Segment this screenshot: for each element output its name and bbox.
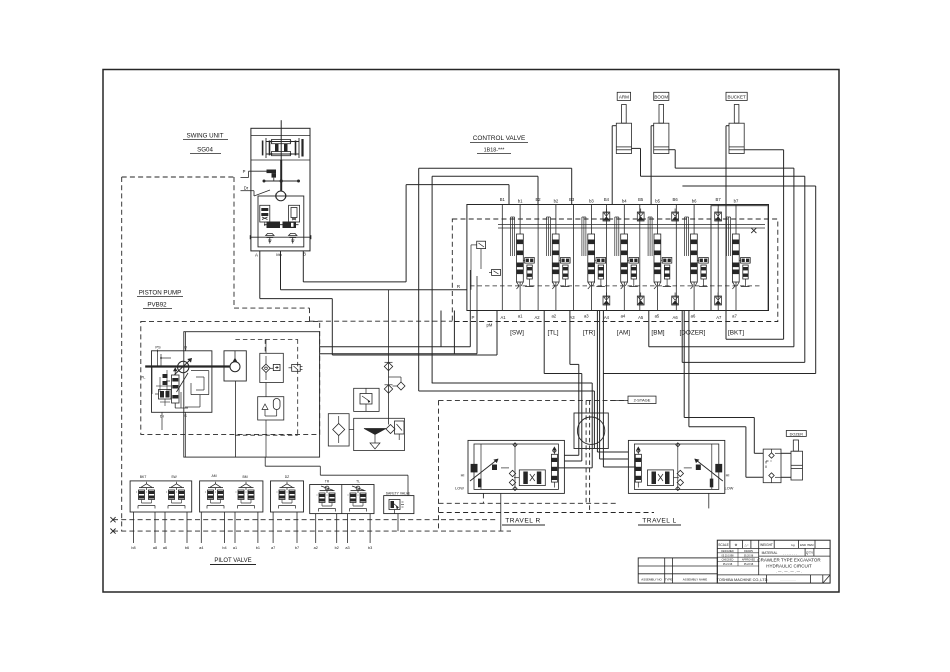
svg-text:a2: a2 — [551, 314, 556, 319]
swing makeup check right — [289, 233, 297, 243]
dashed pilot lines through joint — [586, 400, 590, 512]
svg-text:05.20.98: 05.20.98 — [744, 554, 754, 557]
valve P gallery risers — [470, 270, 477, 311]
main relief valve — [471, 241, 486, 290]
svg-text:[BKT]: [BKT] — [728, 330, 744, 337]
valve section [AM] spool — [607, 205, 639, 311]
svg-text:b6: b6 — [185, 546, 189, 550]
svg-text:SG04: SG04 — [197, 147, 213, 154]
wire valve drain lines to joint — [597, 311, 603, 449]
svg-text:B4: B4 — [604, 197, 610, 202]
swing relief valve right — [289, 205, 300, 226]
svg-text:BOOM: BOOM — [654, 95, 668, 100]
wire trunk line 4 — [419, 391, 595, 449]
label PILOT VALVE — [210, 558, 256, 565]
safety valve — [384, 491, 414, 513]
pilot select valve — [489, 269, 501, 275]
swing makeup check left — [266, 233, 274, 243]
swing anti-cavitation spools — [264, 222, 299, 229]
svg-text:05.21.98: 05.21.98 — [723, 563, 733, 566]
wire swing Mu return R line — [281, 251, 467, 290]
swing motor valve box — [258, 196, 304, 247]
svg-text:a2: a2 — [314, 546, 318, 550]
pump dashed enclosure — [141, 321, 320, 434]
svg-text:ARM: ARM — [619, 95, 629, 100]
svg-text:b4: b4 — [622, 199, 627, 204]
svg-text:P: P — [472, 315, 475, 320]
title drawing name — [757, 558, 821, 574]
svg-text:a5: a5 — [655, 314, 660, 319]
pilot port labels box1 — [131, 546, 189, 550]
control valve section names — [510, 330, 744, 337]
svg-text:WEIGHT: WEIGHT — [760, 543, 773, 547]
svg-text:kg: kg — [791, 543, 795, 547]
svg-text:a3: a3 — [345, 546, 349, 550]
swing relief valve left — [260, 205, 270, 226]
svg-text:a4: a4 — [621, 314, 626, 319]
svg-text:a6: a6 — [691, 314, 696, 319]
svg-text:b2: b2 — [335, 546, 339, 550]
control valve port labels bottom — [500, 314, 737, 321]
port relief valve bottom a6 — [672, 293, 679, 306]
dozer cylinder — [791, 440, 803, 480]
tank return filter with bypass — [386, 421, 404, 440]
dozer pilot check valve box — [763, 449, 781, 483]
valve section [BM] spool — [640, 205, 672, 311]
swing port labels — [255, 252, 306, 258]
wire BOOM head side — [651, 126, 654, 205]
svg-text:b7: b7 — [734, 199, 739, 204]
pilot port labels box4 — [314, 546, 373, 550]
label CONTROL VALVE — [470, 135, 528, 154]
wire BUCKET head side — [726, 126, 729, 340]
svg-text:PL: PL — [141, 375, 147, 380]
travel L motor — [628, 440, 724, 493]
svg-text:CHECKED: CHECKED — [722, 559, 734, 562]
svg-text:b8: b8 — [131, 546, 135, 550]
svg-text:b3: b3 — [589, 199, 594, 204]
label HI LOW travel R — [455, 474, 464, 491]
svg-text:HI: HI — [726, 474, 730, 478]
pilot valve box 4 travel — [310, 485, 374, 514]
pilot accumulator box — [258, 397, 284, 420]
svg-text:. . . . . . . .: . . . . . . . . — [783, 552, 796, 556]
travel R drain stub — [500, 493, 502, 531]
title company name — [717, 575, 830, 583]
svg-text:a1: a1 — [233, 546, 237, 550]
svg-text:b3: b3 — [368, 546, 372, 550]
pilot relief small valve — [289, 364, 303, 371]
wire loop right outer — [682, 186, 815, 374]
travel dashed drain lines — [439, 493, 655, 512]
wire swing A to valve — [260, 251, 497, 355]
wire joint to travel R port 2 — [564, 449, 581, 462]
valve section [TR] spool — [574, 205, 606, 311]
wire loop arm to valve — [641, 176, 805, 362]
DOZER label — [786, 431, 806, 437]
pilot valve box 2 labels — [211, 474, 247, 479]
svg-text:PILOT VALVE: PILOT VALVE — [214, 558, 251, 564]
dashed pilot boundary left — [121, 177, 123, 531]
pump port labels — [141, 345, 188, 419]
svg-text:a8: a8 — [153, 546, 157, 550]
wire joint to travel L port 1 — [597, 449, 628, 453]
svg-text:SCALE: SCALE — [718, 543, 728, 547]
svg-text:BUCKET: BUCKET — [727, 95, 746, 100]
bypass valve box — [354, 388, 379, 411]
port relief valve top b7 — [715, 209, 722, 222]
svg-text:b2: b2 — [554, 199, 559, 204]
svg-text:SW: SW — [171, 475, 177, 479]
pump regulator extra marks — [156, 370, 188, 408]
svg-text:A4: A4 — [604, 315, 610, 320]
svg-text:a6: a6 — [163, 546, 167, 550]
port relief valve bottom a5 — [637, 293, 644, 306]
svg-text:b5: b5 — [655, 199, 660, 204]
title block parts table — [638, 558, 717, 583]
svg-text:P: P — [243, 169, 246, 174]
wire loop boom to valve — [649, 168, 794, 347]
title row 2 texts — [721, 550, 814, 566]
wire ARM rod side — [632, 148, 641, 176]
pump internal stubs — [162, 339, 266, 457]
pilot dashed line 2 with X — [110, 529, 511, 534]
svg-text:B6: B6 — [673, 197, 679, 202]
pump regulator spool — [166, 368, 179, 408]
swing unit outer box — [251, 128, 310, 251]
svg-text:A6: A6 — [673, 315, 679, 320]
svg-text:b7: b7 — [295, 546, 299, 550]
svg-text:05.20.1998: 05.20.1998 — [722, 554, 735, 557]
wire joint to travel L port 2 — [600, 449, 629, 460]
pump outer circuit box — [184, 332, 320, 457]
pilot valve box 4 labels — [325, 480, 360, 484]
svg-text:BM: BM — [242, 475, 247, 479]
svg-text:[AM]: [AM] — [617, 330, 630, 337]
svg-text:B5: B5 — [638, 197, 644, 202]
pump PS line — [158, 350, 172, 367]
port Dr swing — [241, 186, 271, 197]
pump bottom connector — [264, 457, 266, 466]
wire trunk line 2 TL to joint — [544, 311, 582, 449]
svg-text:△○: △○ — [744, 543, 748, 547]
BUCKET cylinder — [726, 92, 747, 153]
wire trunk right branch — [603, 373, 815, 375]
wire trunk line 1 TR to joint — [570, 311, 579, 449]
wire joint to travel R port 3 — [558, 449, 592, 468]
wire ARM head side — [612, 126, 616, 205]
gear pump symbol — [230, 351, 240, 372]
wire BUCKET rod side — [726, 150, 784, 340]
wire dozer section line 2 — [689, 311, 763, 478]
wire joint to travel L port 3 — [603, 449, 636, 468]
pilot valve box 1 — [130, 481, 192, 512]
wire dozer section line 1 — [684, 311, 763, 454]
svg-text:BKT: BKT — [140, 475, 147, 479]
label TRAVEL L — [638, 518, 681, 526]
svg-text:ASSEMBLY NO: ASSEMBLY NO — [641, 578, 662, 582]
swing unit header line — [251, 135, 310, 137]
pilot check valve box — [260, 353, 284, 382]
control valve outer box — [467, 205, 769, 311]
travel R motor — [468, 440, 564, 493]
main pump box — [152, 351, 212, 413]
svg-text:TYPE: TYPE — [665, 578, 673, 582]
svg-text:[TL]: [TL] — [547, 330, 558, 337]
port relief valve top b5 — [637, 209, 644, 222]
svg-text:2-STAGE: 2-STAGE — [634, 398, 651, 403]
control valve port labels top — [500, 197, 739, 204]
piston pump symbol — [145, 359, 229, 375]
svg-text:TL: TL — [356, 480, 360, 484]
svg-text:DESIGNED: DESIGNED — [721, 550, 734, 553]
gear pump box — [224, 351, 246, 381]
swing parking brake port P — [241, 169, 277, 181]
pilot valve box 2 — [200, 481, 263, 512]
svg-text:[SW]: [SW] — [510, 330, 524, 337]
return filter box — [328, 414, 349, 446]
svg-text:HYDRAULIC CIRCUIT: HYDRAULIC CIRCUIT — [766, 563, 812, 568]
X mark right — [751, 228, 756, 233]
svg-text:TR: TR — [325, 480, 330, 484]
svg-text:b1: b1 — [518, 199, 523, 204]
wire trunk line 3 — [432, 383, 593, 449]
dashed travel boundary left — [438, 400, 440, 531]
svg-text:TRAVEL L: TRAVEL L — [642, 518, 676, 525]
svg-text:R: R — [457, 284, 460, 289]
control valve BKT section box — [711, 206, 768, 311]
svg-text:05.22.98: 05.22.98 — [744, 563, 754, 566]
control valve dashed boundary — [452, 219, 778, 322]
label SWING UNIT — [183, 133, 228, 154]
pilot valve port lines box3 — [273, 512, 297, 543]
valve section [SW] spool — [502, 205, 534, 311]
svg-text:A7: A7 — [716, 315, 722, 320]
control valve internal dashed line — [470, 285, 761, 287]
svg-text:a7: a7 — [271, 546, 275, 550]
BOOM cylinder — [654, 92, 669, 153]
rotary joint — [574, 413, 608, 449]
wire BOOM rod side — [669, 150, 675, 168]
tank link line — [349, 429, 354, 431]
svg-text:b4: b4 — [222, 546, 226, 550]
safety valve drain — [397, 514, 399, 532]
dashed pilot route swing to pM — [122, 177, 453, 321]
title block main box — [717, 540, 830, 583]
label TRAVEL R — [502, 518, 545, 526]
svg-text:SAFETY VALVE: SAFETY VALVE — [386, 491, 411, 495]
hydraulic tank — [354, 418, 405, 450]
svg-text:DZ: DZ — [285, 475, 290, 479]
svg-text:TOSHIBA MACHINE CO.,LTD.: TOSHIBA MACHINE CO.,LTD. — [717, 578, 769, 582]
svg-text:A2: A2 — [534, 315, 540, 320]
swing motor shaft — [263, 160, 301, 191]
wire loop travel left supply — [432, 176, 538, 383]
pilot valve box 3 label — [285, 475, 290, 479]
svg-text:HI: HI — [461, 474, 465, 478]
swing bottom bus — [250, 235, 311, 239]
port relief valve bottom a4 — [603, 293, 610, 306]
svg-text:APPROVED: APPROVED — [742, 559, 756, 562]
svg-text:a7: a7 — [732, 314, 737, 319]
wire joint to travel R port 1 — [564, 449, 578, 456]
suction check valves — [384, 290, 405, 425]
travel L drain stub — [708, 493, 710, 508]
valve section [BKT] spool — [718, 205, 750, 311]
svg-text:MATERIAL: MATERIAL — [762, 551, 778, 555]
2-STAGE label — [439, 396, 657, 403]
wire pump P1 to valve — [320, 311, 471, 347]
svg-text:b6: b6 — [692, 199, 697, 204]
svg-text:CRAWLER TYPE EXCAVATOR: CRAWLER TYPE EXCAVATOR — [757, 558, 821, 563]
svg-text:a3: a3 — [584, 314, 589, 319]
svg-text:TRAVEL R: TRAVEL R — [505, 518, 541, 525]
wire dozer valve to cylinder — [781, 453, 791, 477]
valve section [DOZER] spool — [676, 205, 708, 311]
svg-text:A1: A1 — [500, 315, 506, 320]
pump Q outlet stub — [184, 332, 186, 351]
svg-text:LOW: LOW — [455, 487, 464, 491]
svg-text:AM: AM — [211, 474, 216, 478]
svg-text:. — . — . — . — .: . — . — . — . — . — [776, 569, 802, 573]
svg-text:B1: B1 — [500, 197, 506, 202]
control valve internal bus lines — [498, 224, 765, 228]
wire pump P risers — [441, 311, 454, 354]
svg-text:A: A — [255, 253, 258, 258]
svg-text:SWING UNIT: SWING UNIT — [186, 133, 223, 140]
svg-text:LOW: LOW — [725, 487, 734, 491]
svg-text:pM: pM — [486, 323, 492, 328]
ARM cylinder — [616, 92, 631, 153]
svg-text:PISTON PUMP: PISTON PUMP — [139, 290, 182, 297]
port relief valve top b4 — [603, 209, 610, 222]
svg-text:a4: a4 — [199, 546, 203, 550]
wire swing B to valve B1 — [303, 185, 509, 282]
swing hydraulic motor — [276, 191, 286, 201]
label HI LOW travel L — [725, 474, 734, 491]
svg-text:CONTROL VALVE: CONTROL VALVE — [473, 135, 525, 142]
port relief valve top b6 — [672, 209, 679, 222]
pilot valve port lines box4 — [316, 514, 370, 543]
svg-text:1B18-***: 1B18-*** — [484, 148, 506, 154]
pilot valve port lines box2 — [201, 512, 258, 543]
svg-text:. . . . . . . .: . . . . . . . . — [781, 578, 796, 582]
pilot port labels box3 — [271, 546, 299, 550]
svg-text:Q'TY: Q'TY — [806, 551, 814, 555]
svg-text:ASSEMBLY NAME: ASSEMBLY NAME — [683, 578, 708, 582]
wire pump P2 to valve — [320, 311, 477, 354]
wire pilot supply to safety valve — [265, 466, 408, 495]
border frame — [103, 70, 839, 593]
swing reduction gear — [251, 120, 310, 160]
pilot valve box 1 labels — [140, 475, 178, 479]
title row 1 texts — [718, 543, 814, 547]
pump inner dashed box — [235, 339, 297, 435]
label P pM — [472, 315, 493, 328]
valve section [TL] spool — [538, 205, 570, 311]
svg-text:B7: B7 — [716, 197, 722, 202]
label PISTON PUMP — [137, 290, 183, 309]
svg-text:Dr: Dr — [244, 186, 249, 191]
svg-text:PVB92: PVB92 — [147, 302, 167, 309]
pilot valve port lines box1 — [134, 512, 188, 543]
svg-text:DOZER: DOZER — [790, 432, 804, 436]
pilot dashed line 1 with X — [110, 517, 497, 522]
svg-text:※: ※ — [734, 543, 737, 547]
svg-text:b1: b1 — [256, 546, 260, 550]
port relief valve bottom a7 — [715, 293, 722, 306]
svg-text:END ITEM: END ITEM — [800, 543, 814, 547]
svg-text:[DOZER]: [DOZER] — [680, 330, 706, 337]
svg-text:DRAWN: DRAWN — [744, 550, 753, 553]
pilot port labels box2 — [199, 546, 260, 550]
wire loop travel right supply — [419, 168, 572, 391]
svg-text:[TR]: [TR] — [583, 330, 595, 337]
pump feedback lines — [185, 371, 209, 407]
svg-text:A5: A5 — [638, 315, 644, 320]
svg-text:[BM]: [BM] — [651, 330, 664, 337]
pump suction line S — [234, 381, 236, 457]
svg-text:a1: a1 — [518, 314, 523, 319]
pump regulator pilot block — [152, 367, 188, 400]
pilot valve box 3 — [271, 481, 304, 512]
svg-text:PS: PS — [155, 345, 161, 350]
